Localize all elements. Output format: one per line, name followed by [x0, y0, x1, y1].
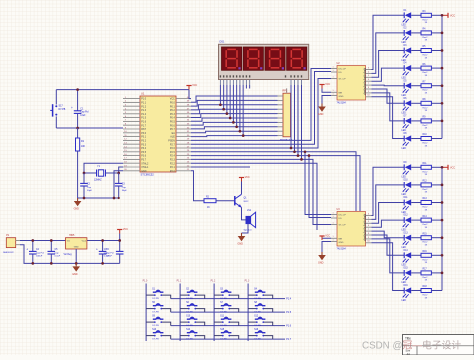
wire res-bus — [431, 102, 442, 104]
wire led-res — [411, 219, 421, 221]
wire display segment pin 2 drop — [223, 85, 225, 109]
svg-text:LED: LED — [402, 212, 407, 214]
7-segment display DS1 (4 digit) — [219, 41, 309, 86]
junction digit common 3 — [297, 154, 300, 157]
LED D5 — [402, 80, 412, 97]
svg-text:74LS164: 74LS164 — [337, 103, 347, 105]
svg-text:ALE: ALE — [170, 136, 175, 139]
svg-text:P2.1: P2.1 — [170, 166, 176, 169]
wire P0.5 segment bus — [191, 118, 278, 121]
svg-text:LED: LED — [402, 148, 407, 150]
svg-text:S12: S12 — [254, 316, 259, 318]
pushbutton S6 — [180, 302, 205, 313]
wire XTAL1 — [119, 167, 123, 173]
svg-text:R18: R18 — [423, 286, 428, 288]
pushbutton S7 — [214, 302, 239, 313]
speaker LS1 — [244, 210, 256, 232]
pushbutton S10 — [180, 316, 205, 327]
wire U3 Q0 to LED 9 — [372, 167, 405, 215]
capacitor C2 30pF — [80, 173, 92, 198]
junction P0 drop 6 — [235, 125, 238, 128]
svg-text:DY-PB: DY-PB — [220, 298, 227, 300]
svg-text:LED: LED — [402, 77, 407, 79]
LED D9 — [402, 162, 412, 179]
wire VCC drop to pin 40 — [189, 90, 191, 99]
resistor R11 1K — [421, 163, 431, 176]
pushbutton S1 — [146, 289, 171, 300]
svg-text:P3.0: P3.0 — [141, 132, 147, 135]
resistor R18 1K — [421, 286, 431, 299]
svg-text:LED: LED — [402, 229, 407, 231]
svg-text:GND: GND — [141, 170, 147, 173]
LED D4 — [402, 63, 412, 80]
svg-text:S14: S14 — [186, 329, 191, 331]
svg-text:LED: LED — [402, 265, 407, 267]
svg-text:LED: LED — [402, 130, 407, 132]
wire U5 gnd — [75, 249, 77, 263]
wire display segment pin 3 drop — [226, 85, 228, 114]
wire P2.5 — [191, 152, 356, 211]
wire res-bus — [431, 219, 442, 221]
power port VCC (U2) — [319, 83, 330, 88]
wire led-res — [411, 290, 421, 292]
wire digit common 3 — [297, 85, 299, 156]
wire U2 Q7 to LED 8 — [372, 97, 405, 139]
svg-text:P1.5: P1.5 — [141, 117, 147, 120]
svg-text:Cap Pol: Cap Pol — [80, 112, 89, 114]
wire P0.0 segment bus — [191, 96, 278, 102]
resistor network RP1 — [278, 88, 294, 141]
wire P0.7 segment bus — [191, 127, 278, 129]
svg-text:P2.4: P2.4 — [170, 155, 176, 158]
junction P0 drop 8 — [242, 134, 245, 137]
wire keypad column 3 — [213, 284, 215, 342]
svg-text:D12: D12 — [404, 215, 409, 217]
junction bus2 — [441, 184, 444, 187]
pushbutton S16 — [248, 329, 273, 340]
wire led-res — [411, 85, 421, 87]
junction bus2 — [441, 219, 444, 222]
svg-text:DS1: DS1 — [220, 41, 225, 44]
svg-text:R16: R16 — [423, 251, 428, 253]
svg-text:Vout: Vout — [82, 240, 87, 243]
svg-text:VCC: VCC — [192, 84, 197, 87]
svg-text:1: 1 — [332, 93, 333, 95]
svg-text:D16: D16 — [404, 285, 409, 287]
wire led-res — [411, 184, 421, 186]
resistor R9 1K — [421, 117, 431, 130]
svg-text:VCC: VCC — [123, 228, 128, 231]
wire P0.4 segment bus — [191, 114, 278, 118]
wire res-bus — [431, 85, 442, 87]
wire U3 Q7 to LED 16 — [372, 243, 405, 291]
wire res-bus — [431, 32, 442, 34]
svg-text:S17: S17 — [59, 104, 64, 107]
svg-text:VCC: VCC — [325, 235, 330, 238]
wire U2 Q6 to LED 7 — [372, 93, 405, 121]
svg-text:LED: LED — [402, 194, 407, 196]
wire ground rail (crystal) — [78, 197, 119, 199]
wire PSEN to U2 pin A — [191, 69, 331, 141]
junction reset rail top — [76, 88, 79, 91]
svg-text:XTAL2: XTAL2 — [141, 162, 149, 165]
svg-text:VCC: VCC — [245, 176, 250, 179]
svg-text:Res2: Res2 — [423, 207, 429, 209]
LED D8 — [402, 133, 412, 150]
junction C7 top — [118, 239, 121, 242]
ground (psu) — [72, 263, 80, 276]
pushbutton S3 — [214, 289, 239, 300]
svg-text:P0.6: P0.6 — [170, 124, 176, 127]
resistor R2 1K — [204, 197, 216, 210]
wire led-res — [411, 32, 421, 34]
capacitor C1 10uF — [71, 90, 89, 128]
wire res-bus — [431, 237, 442, 239]
svg-text:P0.4: P0.4 — [170, 117, 176, 120]
pushbutton S12 — [248, 316, 273, 327]
svg-text:S13: S13 — [152, 329, 157, 331]
capacitor C7 0.1uF — [104, 241, 124, 264]
wire P0.2 segment bus — [191, 105, 278, 110]
wire led-res — [411, 120, 421, 122]
wire res-bus — [431, 202, 442, 204]
junction RST — [76, 127, 79, 130]
junction bus2 top — [441, 166, 444, 169]
wire led-res — [411, 138, 421, 140]
svg-text:DS: DS — [339, 218, 343, 220]
wire keypad column 1 — [145, 284, 147, 342]
wire keypad column 4 — [247, 284, 249, 342]
svg-text:Res2: Res2 — [423, 189, 429, 191]
svg-text:Cap Pol: Cap Pol — [36, 252, 44, 254]
wire U3 MR to VCC — [322, 238, 331, 240]
svg-text:DY-PB: DY-PB — [152, 312, 159, 314]
svg-text:P0.7: P0.7 — [170, 128, 176, 131]
svg-text:0.1uF: 0.1uF — [55, 256, 61, 258]
svg-text:VCC: VCC — [450, 166, 455, 169]
svg-text:LED: LED — [402, 282, 407, 284]
svg-text:+: + — [26, 247, 28, 251]
wire display segment pin 8 drop — [242, 85, 244, 136]
wire res-bus — [431, 138, 442, 140]
svg-text:P2.3: P2.3 — [170, 159, 176, 162]
svg-text:STC89C52: STC89C52 — [141, 173, 155, 177]
junction digit common 2 — [293, 150, 296, 153]
wire led-res — [411, 237, 421, 239]
svg-text:P1.4: P1.4 — [286, 298, 292, 301]
svg-text:VCC: VCC — [170, 98, 175, 101]
wire vout rail — [87, 240, 120, 242]
voltage regulator U5 7805 — [64, 234, 87, 256]
svg-text:+: + — [96, 247, 98, 251]
svg-text:P3.5: P3.5 — [141, 151, 147, 154]
svg-text:1: 1 — [332, 222, 333, 224]
svg-text:7805: 7805 — [69, 234, 75, 237]
junction digit common 4 — [300, 158, 303, 161]
LED D15 — [402, 268, 412, 285]
junction C6 — [101, 239, 104, 242]
svg-text:DS: DS — [339, 72, 343, 74]
wire U2 Q1 to LED 2 — [372, 33, 405, 74]
wire EA segment bus — [191, 131, 278, 133]
svg-text:30pF: 30pF — [122, 190, 128, 192]
resistor R16 1K — [421, 251, 431, 264]
wire res-bus — [431, 254, 442, 256]
wire res-bus — [431, 166, 442, 168]
svg-text:P2.7: P2.7 — [170, 143, 176, 146]
wire res-bus — [431, 120, 442, 122]
svg-text:S15: S15 — [220, 329, 225, 331]
svg-text:1: 1 — [332, 216, 333, 218]
svg-text:Q0Q1Q2Q3Q4Q5Q6Q7: Q0Q1Q2Q3Q4Q5Q6Q7 — [363, 214, 367, 242]
wire U2 Q0 to LED 1 — [372, 15, 405, 69]
watermark CSDN — [362, 339, 461, 352]
svg-text:10K: 10K — [81, 146, 86, 148]
svg-text:GND: GND — [339, 242, 344, 244]
svg-text:Res2: Res2 — [423, 277, 429, 279]
ground (speaker) — [238, 233, 246, 246]
svg-text:P1.4: P1.4 — [141, 113, 147, 116]
svg-text:DY-PB: DY-PB — [254, 312, 261, 314]
wire U2 GND — [322, 96, 331, 104]
wire display segment pin 5 drop — [232, 85, 234, 122]
svg-text:LED: LED — [402, 113, 407, 115]
wire vcc riser (psu) — [119, 234, 121, 241]
svg-text:MHDR1X2: MHDR1X2 — [3, 252, 14, 254]
wire display pin10 stub — [249, 85, 251, 89]
resistor R10 1K — [421, 134, 431, 147]
LED D13 — [402, 232, 412, 249]
svg-text:P1.7: P1.7 — [286, 338, 292, 341]
svg-text:RP1: RP1 — [283, 89, 288, 92]
svg-text:R13: R13 — [423, 198, 428, 200]
ground (U3) — [318, 252, 326, 265]
pushbutton S9 — [146, 316, 171, 327]
svg-text:DY-PB: DY-PB — [254, 298, 261, 300]
svg-text:P1.5: P1.5 — [286, 311, 292, 314]
wire keypad row 2 — [171, 311, 285, 313]
svg-text:Res2: Res2 — [423, 19, 429, 21]
shift register U2 74LS164 — [331, 62, 372, 105]
transistor Q1 — [235, 194, 249, 207]
resistor R17 1K — [421, 269, 431, 282]
title block — [403, 335, 474, 357]
pushbutton S13 — [146, 329, 171, 340]
svg-text:GND: GND — [339, 96, 344, 98]
resistor R6 1K — [421, 64, 431, 77]
pushbutton S2 — [180, 289, 205, 300]
junction bus2 — [441, 236, 444, 239]
capacitor C4 100uF — [26, 241, 44, 264]
svg-text:LED: LED — [402, 95, 407, 97]
junction P0 drop 4 — [229, 117, 232, 120]
svg-text:1: 1 — [332, 66, 333, 68]
svg-text:Res2: Res2 — [423, 125, 429, 127]
svg-text:GND: GND — [74, 247, 79, 249]
wire P0.1 segment bus — [191, 100, 278, 106]
svg-text:P3.3: P3.3 — [141, 143, 147, 146]
wire LED bus group2 — [441, 167, 443, 290]
wire U3 Q6 to LED 15 — [372, 239, 405, 273]
wire display segment pin 6 drop — [236, 85, 238, 127]
svg-text:Res2: Res2 — [423, 72, 429, 74]
wire P2.6 to U2 CP — [191, 79, 331, 149]
wire LED bus group1 — [441, 15, 443, 138]
wire led-res — [411, 202, 421, 204]
LED D7 — [402, 116, 412, 133]
svg-text:S10: S10 — [186, 316, 191, 318]
svg-text:DY-PB: DY-PB — [152, 298, 159, 300]
wire display segment pin 4 drop — [229, 85, 231, 118]
crystal Y1 — [84, 165, 119, 181]
junction C4 — [31, 239, 34, 242]
junction bus2 — [441, 201, 444, 204]
power port VCC (psu) — [117, 228, 128, 233]
wire ALE segment bus — [191, 136, 278, 137]
wire U3 Q1 to LED 10 — [372, 185, 405, 220]
wire U3 GND — [322, 242, 331, 253]
wire res-bus — [431, 184, 442, 186]
resistor R12 1K — [421, 181, 431, 194]
ground (U2) — [318, 104, 326, 117]
wire keypad row 3 — [171, 325, 285, 327]
wire U2 Q3 to LED 4 — [372, 68, 405, 81]
svg-text:LED: LED — [402, 42, 407, 44]
power port VCC (bus1) — [448, 13, 455, 18]
wire keypad row 1 — [171, 298, 285, 300]
svg-text:DY-PB: DY-PB — [220, 312, 227, 314]
svg-text:30pF: 30pF — [87, 190, 93, 192]
microcontroller U1 STC89C52 — [123, 91, 191, 176]
wire gnd rail (psu) — [20, 245, 120, 264]
svg-text:CSDN @冠—电子设计: CSDN @冠—电子设计 — [362, 339, 461, 352]
wire P2.5 branch to U3 pin A — [305, 152, 331, 215]
wire led-res — [411, 254, 421, 256]
pushbutton S11 — [214, 316, 239, 327]
wire res-bus — [431, 67, 442, 69]
svg-text:P2.6: P2.6 — [170, 147, 176, 150]
junction U5 gnd — [75, 262, 78, 265]
svg-text:Res2: Res2 — [423, 107, 429, 109]
pushbutton S14 — [180, 329, 205, 340]
wire res-bus — [431, 50, 442, 52]
junction bus1 — [441, 67, 444, 70]
svg-text:GND: GND — [318, 113, 324, 116]
svg-text:P3.1: P3.1 — [141, 136, 147, 139]
svg-text:LED: LED — [402, 300, 407, 302]
pushbutton S8 — [248, 302, 273, 313]
svg-text:S16: S16 — [254, 329, 259, 331]
svg-text:1: 1 — [332, 212, 333, 214]
wire VCC top rail — [56, 89, 189, 91]
resistor R7 1K — [421, 81, 431, 94]
resistor R15 1K — [421, 233, 431, 246]
svg-text:D13: D13 — [404, 232, 409, 234]
svg-text:P3.2: P3.2 — [141, 140, 147, 143]
wire RST rail — [56, 127, 123, 129]
LED D1 — [402, 10, 412, 27]
svg-text:1: 1 — [332, 90, 333, 92]
svg-text:DY-PB: DY-PB — [186, 312, 193, 314]
pushbutton S15 — [214, 329, 239, 340]
svg-text:P0.2: P0.2 — [170, 109, 176, 112]
resistor R14 1K — [421, 216, 431, 229]
junction crystal right — [117, 172, 120, 175]
svg-text:10uF: 10uF — [80, 115, 86, 117]
wire vin rail — [20, 240, 66, 242]
wire U2 MR to VCC — [322, 89, 331, 93]
junction gnd rail 2 — [83, 197, 86, 200]
wire U2 Q4 to LED 5 — [372, 84, 405, 87]
junction P0 drop 3 — [226, 112, 229, 115]
svg-text:1: 1 — [332, 236, 333, 238]
junction bus1 — [441, 84, 444, 87]
svg-text:LED: LED — [402, 177, 407, 179]
power port VCC (Q1) — [239, 176, 250, 181]
wire U1 GND pin20 — [114, 171, 123, 198]
svg-text:1: 1 — [332, 76, 333, 78]
pushbutton S5 — [146, 302, 171, 313]
svg-text:P1.6: P1.6 — [286, 325, 292, 328]
junction P0 drop 7 — [239, 130, 242, 133]
power port VCC (U1 pin40) — [186, 84, 197, 89]
wire led-res — [411, 272, 421, 274]
svg-text:DY-PB: DY-PB — [220, 339, 227, 341]
svg-text:DY-PB: DY-PB — [254, 339, 261, 341]
wire led-res — [411, 67, 421, 69]
svg-text:MR: MR — [339, 239, 343, 241]
wire P2.2 — [191, 163, 317, 230]
svg-text:P1.1: P1.1 — [141, 102, 147, 105]
junction bus1 — [441, 32, 444, 35]
resistor R8 1K — [421, 99, 431, 112]
svg-text:P1.3: P1.3 — [141, 109, 147, 112]
svg-text:1: 1 — [332, 70, 333, 72]
svg-text:R14: R14 — [423, 216, 428, 218]
svg-text:Res2: Res2 — [423, 55, 429, 57]
svg-text:12MHZ: 12MHZ — [94, 180, 102, 182]
svg-text:GND: GND — [72, 273, 78, 276]
svg-text:EA: EA — [172, 132, 176, 135]
svg-text:P1.2: P1.2 — [211, 281, 216, 283]
junction bus1 — [441, 102, 444, 105]
power port VCC (U3) — [319, 235, 330, 240]
svg-text:DY-PB: DY-PB — [152, 339, 159, 341]
resistor R13 1K — [421, 198, 431, 211]
svg-text:P2.5: P2.5 — [170, 151, 176, 154]
shift register U3 74LS164 — [331, 208, 372, 251]
junction C5 — [50, 239, 53, 242]
svg-text:U1: U1 — [141, 91, 145, 95]
wire res-bus — [431, 272, 442, 274]
wire display pin9 stub — [245, 85, 247, 89]
svg-text:P1.6: P1.6 — [141, 121, 147, 124]
wire res-bus — [431, 290, 442, 292]
svg-text:P0.3: P0.3 — [170, 113, 176, 116]
svg-text:DY-PB: DY-PB — [152, 325, 159, 327]
wire P0.3 segment bus — [191, 109, 278, 114]
resistor R3 1K — [421, 11, 431, 24]
capacitor C6 100uF — [96, 241, 114, 264]
resistor R1 10K — [76, 128, 86, 198]
wire P2.0 (speaker drive) — [191, 171, 204, 201]
svg-text:Res2: Res2 — [423, 37, 429, 39]
connector P1 MHDR1X2 — [3, 234, 20, 254]
capacitor C3 30pF — [115, 173, 127, 198]
svg-text:DY-PB: DY-PB — [186, 325, 193, 327]
svg-text:LS1: LS1 — [247, 210, 252, 212]
svg-text:PSEN: PSEN — [168, 140, 175, 143]
